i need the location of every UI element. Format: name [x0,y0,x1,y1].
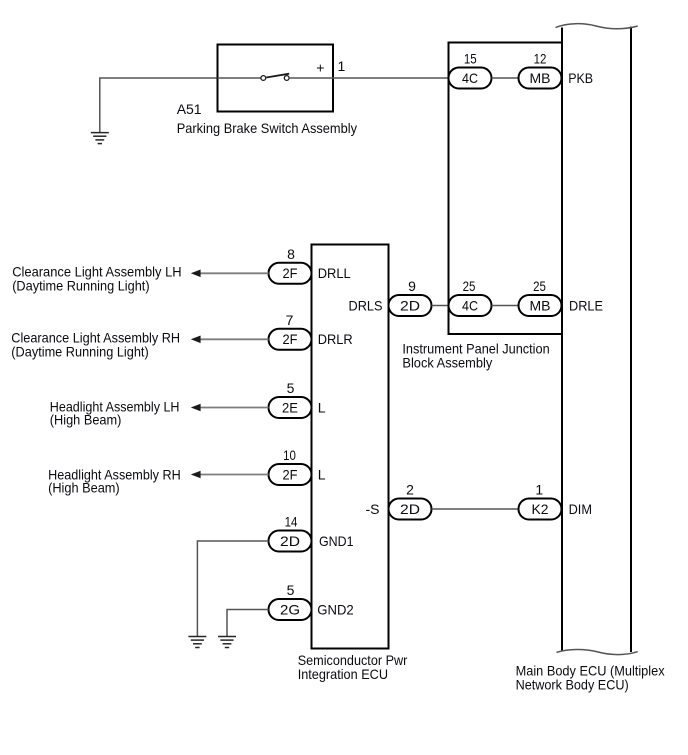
switch A51 box [218,45,334,112]
arrow to Headlight Assembly LH [191,404,269,412]
label Parking Brake Switch Assembly [177,120,357,136]
connector 2F pin 8 (DRLL) [269,263,312,284]
port label GND1 [319,533,354,549]
svg-text:5: 5 [287,582,295,598]
ground symbol (GND2) [218,637,236,648]
port label DRLL [318,265,351,281]
port label -S [366,501,380,517]
label Clearance Light Assembly LH (Daytime Running Light) [12,263,181,293]
connector MB pin 25 (DRLE row) [519,295,562,316]
svg-text:(High Beam): (High Beam) [50,412,122,428]
pin number 15 [464,51,477,67]
svg-text:GND2: GND2 [317,601,354,617]
svg-text:8: 8 [287,246,295,262]
svg-text:2: 2 [406,482,414,498]
port label L (LH) [318,399,326,415]
Main Body ECU box (torn-edge tall rectangle) [556,24,638,655]
svg-text:DIM: DIM [569,501,592,517]
pin number 5 (2G) [287,582,295,598]
svg-text:10: 10 [283,447,296,463]
arrow to Clearance Light Assembly LH [191,270,269,278]
port label GND2 [317,601,354,617]
svg-text:GND1: GND1 [319,533,354,549]
label Main Body ECU (Multiplex Network Body ECU) [516,662,665,692]
Semiconductor Pwr Integration ECU box [312,245,389,649]
connector 2F pin 7 (DRLR) [269,329,312,350]
switch contacts and lever inside A51 [218,74,334,81]
label Instrument Panel Junction Block Assembly [402,341,549,371]
wire GND2 to ground [227,610,269,637]
pin number 25 (MB) [533,278,546,294]
svg-text:25: 25 [533,278,546,294]
svg-text:2E: 2E [282,399,298,415]
wire 4C to MB (DRLE row) [492,305,519,307]
svg-text:25: 25 [463,278,476,294]
svg-text:(High Beam): (High Beam) [48,480,120,496]
svg-text:2F: 2F [283,265,298,281]
svg-text:DRLE: DRLE [569,297,603,313]
pin number 5 (2E) [287,380,295,396]
pin number 25 (4C) [463,278,476,294]
svg-text:L: L [318,399,326,415]
svg-text:DRLR: DRLR [318,331,353,347]
svg-text:2G: 2G [280,601,300,617]
pin number 2 [406,482,414,498]
svg-text:2D: 2D [400,297,420,313]
pin 1 (A51) [338,58,346,74]
svg-text:DRLS: DRLS [349,297,383,313]
Instrument Panel Junction Block box [449,43,563,335]
connector 2D pin 2 (-S) [389,499,432,520]
connector MB pin 12 (PKB row) [519,68,562,89]
connector 2F pin 10 (L high beam RH) [269,464,312,485]
connector 2G pin 5 (GND2) [269,599,312,620]
connector 4C pin 15 (PKB row) [449,68,492,89]
svg-text:9: 9 [408,278,416,294]
label + (switch polarity) [316,60,324,76]
connector K2 pin 1 (DIM) [519,499,562,520]
svg-text:12: 12 [534,51,547,67]
port label DRLS [349,297,383,313]
wire 2D to 4C (DRLE row) [432,305,449,307]
label Headlight Assembly LH (High Beam) [50,399,180,428]
svg-text:(Daytime Running Light): (Daytime Running Light) [11,344,148,360]
svg-text:2D: 2D [280,533,300,549]
pin number 10 [283,447,296,463]
svg-text:DRLL: DRLL [318,265,351,281]
svg-text:5: 5 [287,380,295,396]
svg-text:(Daytime Running Light): (Daytime Running Light) [12,278,149,294]
connector 2D pin 14 (GND1) [269,531,312,552]
net label PKB [568,70,593,86]
pin number 7 [286,312,294,328]
wire 2D to K2 (DIM row) [432,508,519,510]
arrow to Headlight Assembly RH [191,471,269,479]
port label DRLR [318,331,353,347]
connector 4C pin 25 (DRLE row) [449,295,492,316]
net label DIM [569,501,592,517]
svg-text:MB: MB [530,297,551,313]
connector 2D pin 9 (DRLS) [389,295,432,316]
svg-text:A51: A51 [177,101,202,117]
svg-text:2D: 2D [400,501,420,517]
label Semiconductor Pwr Integration ECU [298,652,408,682]
svg-text:L: L [318,466,326,482]
pin number 1 (K2) [535,482,543,498]
pin number 12 [534,51,547,67]
svg-text:Network Body ECU): Network Body ECU) [516,676,629,692]
port label L (RH) [318,466,326,482]
wire: A51 pin1 to connector 4C (PKB) [333,77,449,79]
svg-text:4C: 4C [462,297,478,313]
label Clearance Light Assembly RH (Daytime Running Light) [11,330,180,360]
svg-text:+: + [316,60,324,76]
pin number 9 [408,278,416,294]
connector 2E pin 5 (L high beam LH) [269,397,312,418]
label Headlight Assembly RH (High Beam) [48,466,181,495]
svg-text:14: 14 [285,514,298,530]
svg-text:-S: -S [366,501,380,517]
wire: ground to parking brake switch [100,78,218,133]
svg-text:2F: 2F [283,466,298,482]
arrow to Clearance Light Assembly RH [191,336,269,344]
wire 4C to MB (PKB row) [492,77,519,79]
ground symbol (GND1) [188,637,206,648]
svg-text:2F: 2F [283,331,298,347]
ground symbol (parking brake switch) [91,133,109,144]
svg-text:MB: MB [530,70,551,86]
svg-text:4C: 4C [462,70,478,86]
svg-text:Block Assembly: Block Assembly [402,355,492,371]
label A51 [177,101,202,117]
svg-text:Integration ECU: Integration ECU [298,666,388,682]
svg-text:K2: K2 [532,501,549,517]
svg-text:1: 1 [338,58,346,74]
svg-text:PKB: PKB [568,70,593,86]
svg-text:15: 15 [464,51,477,67]
net label DRLE [569,297,603,313]
svg-text:Parking Brake Switch Assembly: Parking Brake Switch Assembly [177,120,357,136]
svg-text:1: 1 [535,482,543,498]
pin number 8 [287,246,295,262]
pin number 14 [285,514,298,530]
wire GND1 to ground [197,541,268,636]
svg-text:7: 7 [286,312,294,328]
